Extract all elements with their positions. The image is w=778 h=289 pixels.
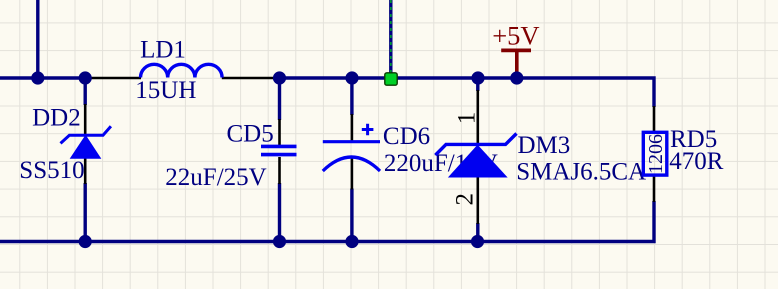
diode DD2 (19, 104, 111, 184)
junction at node (478,78) (471, 71, 484, 84)
svg-text:15UH: 15UH (135, 77, 196, 104)
pin 1 of CD6 (top) (351, 114, 354, 143)
svg-text:22uF/25V: 22uF/25V (165, 164, 266, 191)
DD2 anode triangle (71, 136, 101, 159)
wire: CD6 top branch (350, 78, 353, 115)
junction at node (85.2,78) (79, 71, 92, 84)
wire: CD5 top branch (278, 78, 281, 120)
capacitor CD6 (polarized) (323, 114, 498, 190)
svg-text:2: 2 (452, 193, 479, 206)
junction at node (279.5,241.5) (273, 235, 286, 248)
wire: top bus left segment (0, 76, 88, 79)
TVS diode DM3 (436, 90, 647, 224)
wire: DD2 bottom branch (83, 183, 86, 242)
pin 2 of CD6 (bottom) (351, 157, 354, 190)
svg-text:DD2: DD2 (32, 105, 81, 132)
pin 2 of LD1 (222, 77, 279, 80)
svg-text:CD6: CD6 (383, 123, 430, 150)
DM3 anode triangle (449, 145, 507, 177)
CD6 top plate (323, 140, 380, 143)
svg-text:SS510: SS510 (19, 157, 84, 184)
svg-text:+5V: +5V (492, 20, 539, 50)
junction at node (37.8,78) (31, 71, 44, 84)
junction at node (477.5,241.5) (471, 235, 484, 248)
wire: vertical net line with green compile dashes (389, 0, 392, 78)
junction at node (516.8,78) (510, 71, 523, 84)
junction at node (352,78) (345, 71, 358, 84)
svg-text:SMAJ6.5CA: SMAJ6.5CA (516, 159, 646, 186)
inductor LD1 (86, 37, 279, 105)
junction at node (85.2,241.5) (79, 235, 92, 248)
pin 1 of DM3 (top) (476, 90, 479, 145)
junction at node (352,241.5) (345, 235, 358, 248)
wire: vertical stub top-left (36, 0, 39, 78)
+5V bar (501, 49, 531, 53)
pin 1 of CD5 (top) (278, 119, 281, 145)
svg-text:DM3: DM3 (518, 132, 571, 159)
wire: CD6 bottom branch (350, 189, 353, 242)
pin 1 of RD5 (top) (653, 106, 656, 133)
node marker (green) at (390.8,78) (385, 73, 397, 85)
svg-text:CD5: CD5 (227, 120, 274, 147)
svg-text:LD1: LD1 (140, 37, 186, 64)
RD5 body rectangle (643, 132, 667, 175)
power port +5V (492, 20, 539, 78)
capacitor CD5 (165, 119, 296, 191)
inductor arcs (141, 64, 223, 77)
pin 2 of RD5 (bottom) (653, 175, 656, 203)
+5V stem (515, 50, 519, 78)
svg-text:1: 1 (453, 112, 480, 125)
pin 1 of DD2 (bottom) (84, 158, 87, 184)
pin 2 of CD5 (bottom) (278, 157, 281, 184)
pin 2 of DM3 (bottom) (476, 177, 479, 224)
CD6 curved bottom plate (323, 157, 380, 171)
wire: DM3 top branch (476, 78, 479, 91)
DM3 cathode bar (436, 134, 517, 156)
pin 2 of DD2 (top) (84, 104, 87, 136)
wire: top bus right segment with corner down (278, 78, 654, 107)
DD2 cathode bar (61, 126, 111, 143)
resistor RD5 (643, 106, 723, 202)
wire: bottom bus with corner up to RD5 (0, 201, 654, 242)
svg-text:470R: 470R (669, 148, 724, 175)
wire: CD5 bottom branch (278, 183, 281, 242)
svg-text:1206: 1206 (645, 134, 667, 174)
junction at node (279.5,78) (273, 71, 286, 84)
CD5 bottom plate (261, 153, 297, 157)
pin 1 of LD1 (86, 77, 141, 80)
wire: DM3 bottom branch (476, 223, 479, 242)
CD5 top plate (261, 145, 297, 149)
wire: DD2 top branch (83, 78, 86, 105)
CD6 plus sign (362, 124, 374, 136)
